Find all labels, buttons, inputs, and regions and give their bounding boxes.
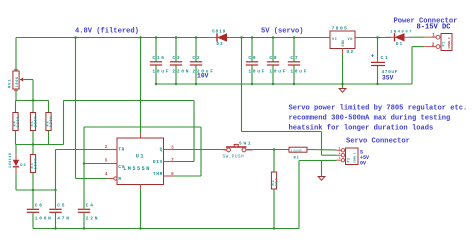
wire 555 gnd drop <box>140 190 142 229</box>
wire C1 top lead <box>377 38 379 62</box>
svg-text:10uF: 10uF <box>152 69 170 75</box>
wire R5 top lead <box>32 101 34 113</box>
connector P2 box <box>346 148 359 165</box>
wire R4 bottom lead <box>15 131 17 145</box>
svg-text:C6: C6 <box>35 203 44 209</box>
svg-text:1N4007: 1N4007 <box>390 30 413 34</box>
wire R6 top lead <box>48 101 50 113</box>
wire 7805 input to D1 <box>362 37 392 39</box>
wire RV1 wiper <box>23 79 33 81</box>
capacitor C1 <box>371 54 398 82</box>
svg-text:10uF: 10uF <box>248 69 266 75</box>
wire TR drop to C5 <box>55 150 57 209</box>
svg-text:C10: C10 <box>152 55 165 61</box>
svg-text:5: 5 <box>105 158 108 164</box>
wire reset drop <box>75 38 77 179</box>
svg-text:5819: 5819 <box>212 30 226 35</box>
ground symbol near servo connector <box>318 177 325 181</box>
junction <box>273 227 275 229</box>
wire 5V feed horizontal <box>242 131 322 133</box>
wire to P2 +5V pin <box>322 154 337 156</box>
diode D2 body <box>208 33 232 41</box>
svg-text:1N4148: 1N4148 <box>9 152 13 168</box>
capacitor C6 <box>27 203 53 222</box>
wire TR rail <box>16 189 56 191</box>
wire 0V drop <box>298 161 300 229</box>
wire R5 bottom lead <box>32 131 34 145</box>
svg-text:P1: P1 <box>443 41 447 47</box>
junction <box>155 36 157 38</box>
wire 5V rail <box>232 37 323 39</box>
resistor R6 <box>46 113 54 131</box>
svg-text:+: + <box>371 54 374 60</box>
svg-text:D3: D3 <box>20 164 26 168</box>
wire THR/CV drop to C4 <box>83 127 85 209</box>
svg-text:Q: Q <box>160 147 163 153</box>
555 gnd pin <box>140 185 142 191</box>
wire C8 bottom lead <box>272 65 274 84</box>
svg-text:R1: R1 <box>294 156 300 160</box>
resistor R4 <box>13 113 21 131</box>
svg-text:100K: 100K <box>16 76 20 88</box>
svg-text:3: 3 <box>339 156 341 160</box>
svg-text:0V: 0V <box>360 160 366 166</box>
555 vcc pin stub <box>140 133 142 138</box>
wire C7 bottom lead <box>293 65 295 84</box>
svg-text:SW_PUSH: SW_PUSH <box>223 155 245 160</box>
svg-text:7: 7 <box>171 157 174 163</box>
svg-text:Servo power limited by 7805 re: Servo power limited by 7805 regulator et… <box>289 105 468 113</box>
wire resistor top rail <box>16 100 49 102</box>
wire R2 bottom lead <box>273 189 275 229</box>
wire Q output <box>174 149 226 151</box>
wire R4 top lead <box>15 101 17 113</box>
svg-text:100R: 100R <box>290 150 302 154</box>
svg-text:DIS: DIS <box>153 159 163 165</box>
capacitor C7 <box>288 55 308 74</box>
svg-text:C8: C8 <box>269 55 278 61</box>
potentiometer RV1 <box>9 70 24 91</box>
wire C6 top lead <box>32 190 34 209</box>
wire R1 to servo S <box>307 149 337 151</box>
svg-text:Servo Connector: Servo Connector <box>346 138 410 146</box>
svg-text:C7: C7 <box>290 55 299 61</box>
wire to DIS pin <box>174 161 194 163</box>
svg-text:C4: C4 <box>86 203 95 209</box>
junction <box>272 36 274 38</box>
svg-text:C9: C9 <box>248 55 257 61</box>
wire 0V <box>299 159 337 161</box>
junction <box>195 36 197 38</box>
diode D3 1N4148 <box>9 152 26 174</box>
wire gnd stub servo <box>321 160 323 176</box>
svg-text:100K: 100K <box>35 158 39 170</box>
svg-text:TR: TR <box>118 147 125 153</box>
wire ground rail mid <box>156 83 412 85</box>
junction <box>155 83 157 85</box>
wire R3 bottom lead <box>32 173 34 191</box>
svg-text:220K: 220K <box>17 116 21 128</box>
svg-text:D1: D1 <box>396 43 403 47</box>
wire C8 top lead <box>272 38 274 62</box>
wire P1 pin2 <box>412 46 424 48</box>
junction <box>240 36 242 38</box>
svg-text:recommend 300-500mA max during: recommend 300-500mA max during testing <box>289 115 451 123</box>
wire C9 top lead <box>251 38 253 62</box>
wire DIS riser <box>63 101 65 145</box>
capacitor C8 <box>267 55 287 74</box>
junction <box>83 227 85 229</box>
wire 4.8V rail <box>16 37 208 39</box>
junction <box>175 36 177 38</box>
wire 5V feed drop <box>241 38 243 132</box>
svg-text:1: 1 <box>432 32 435 38</box>
junction <box>54 189 56 191</box>
wire 7805 gnd <box>342 54 344 85</box>
wire 555 vcc drop <box>140 38 142 134</box>
svg-text:100N: 100N <box>35 215 53 221</box>
wire C5 bottom lead <box>55 212 57 228</box>
svg-text:10uF: 10uF <box>269 69 287 75</box>
resistor <box>271 172 279 189</box>
junction <box>251 36 253 38</box>
svg-text:35V: 35V <box>382 75 394 82</box>
wire TR <box>56 149 109 151</box>
junction <box>54 227 56 229</box>
svg-text:6: 6 <box>171 171 174 177</box>
wire THR riser <box>200 127 202 176</box>
svg-text:10V: 10V <box>197 73 209 80</box>
junction <box>175 83 177 85</box>
svg-text:10uF: 10uF <box>290 69 308 75</box>
junction <box>139 227 141 229</box>
ground symbol under 7805 <box>339 89 346 93</box>
svg-text:3: 3 <box>171 144 174 150</box>
resistor R1 <box>289 147 307 160</box>
junction <box>195 83 197 85</box>
svg-text:C3: C3 <box>172 55 181 61</box>
junction <box>74 36 76 38</box>
wire P1 pin2 drop <box>411 47 413 84</box>
junction <box>139 36 141 38</box>
svg-text:U2: U2 <box>347 49 355 55</box>
wire C4 bottom lead <box>83 212 85 228</box>
svg-text:VO: VO <box>348 38 354 42</box>
wire R3 top lead <box>32 145 34 155</box>
wire D3 top lead <box>15 145 17 154</box>
wire THR to riser <box>174 175 201 177</box>
wire top rail to RV1 <box>15 38 17 72</box>
ic U1 LM555N box <box>117 138 164 185</box>
svg-text:VI: VI <box>332 38 338 42</box>
svg-text:U1: U1 <box>136 153 145 159</box>
resistor <box>30 155 38 173</box>
junction <box>32 143 34 145</box>
wire wiper drop <box>32 80 34 101</box>
svg-text:8-15V DC: 8-15V DC <box>417 24 452 32</box>
svg-text:2: 2 <box>432 42 435 48</box>
svg-text:7805: 7805 <box>332 26 349 32</box>
svg-text:SW1: SW1 <box>239 141 252 147</box>
capacitor C10 <box>150 55 170 74</box>
capacitor C4 <box>78 203 99 222</box>
wire to reset pin <box>76 178 109 180</box>
wire SW1 to R1 <box>246 149 289 151</box>
wire D1 to P1 pin1 <box>410 36 425 38</box>
svg-text:4.8V (filtered): 4.8V (filtered) <box>75 28 139 36</box>
wire DIS horizontal <box>64 100 195 102</box>
7805 pins <box>323 37 330 39</box>
wire C6 bottom lead <box>32 212 34 228</box>
junction <box>32 99 34 101</box>
wire RV1 bottom <box>15 90 17 100</box>
wire D3 bottom lead <box>15 174 17 190</box>
connector P1 box <box>441 34 452 51</box>
svg-text:1: 1 <box>339 146 341 150</box>
svg-text:C1: C1 <box>381 55 390 61</box>
svg-text:RV1: RV1 <box>9 78 13 88</box>
wire 5V feed drop2 <box>321 132 323 156</box>
wire C3 top lead <box>175 38 177 62</box>
svg-text:220N: 220N <box>172 69 190 75</box>
wire C10 bottom lead <box>155 65 157 84</box>
junction <box>293 36 295 38</box>
capacitor C2 <box>190 55 215 74</box>
capacitor C9 <box>246 55 266 74</box>
wire CV <box>84 163 108 165</box>
junction <box>273 148 275 150</box>
resistor R5 <box>30 113 38 131</box>
wire C9 bottom lead <box>251 65 253 84</box>
regulator U2 7805 box <box>330 31 355 49</box>
wire C1 bottom lead <box>377 66 379 85</box>
svg-text:220K: 220K <box>50 116 54 128</box>
svg-text:CONN_2: CONN_2 <box>448 37 451 48</box>
junction <box>251 83 253 85</box>
diode D1 body <box>386 33 410 41</box>
wire resistor bottom rail <box>16 144 64 146</box>
junction <box>32 189 34 191</box>
555 pin stubs <box>108 149 117 151</box>
svg-text:LM555N: LM555N <box>123 166 151 172</box>
wire C2 bottom lead <box>195 65 197 84</box>
svg-text:D2: D2 <box>217 43 224 47</box>
svg-text:220K: 220K <box>35 116 39 128</box>
svg-text:CONN_3: CONN_3 <box>354 152 357 163</box>
svg-text:C2: C2 <box>192 55 201 61</box>
wire R2 top lead <box>273 150 275 173</box>
svg-text:CV: CV <box>118 164 125 170</box>
svg-text:R: R <box>118 176 121 182</box>
switch SW1 <box>223 141 253 160</box>
svg-text:THR: THR <box>153 171 163 177</box>
junction <box>272 83 274 85</box>
svg-text:4K7: 4K7 <box>276 178 280 187</box>
junction <box>376 83 378 85</box>
junction <box>341 83 343 85</box>
wire THR horizontal <box>84 126 201 128</box>
svg-text:C5: C5 <box>57 203 66 209</box>
wire DIS drop <box>193 101 195 162</box>
svg-text:47N: 47N <box>57 215 70 221</box>
capacitor C3 <box>170 55 190 74</box>
wire C2 top lead <box>195 38 197 62</box>
svg-text:2: 2 <box>339 151 341 155</box>
wire C10 top lead <box>155 38 157 62</box>
wire C7 top lead <box>293 38 295 62</box>
wire C3 bottom lead <box>175 65 177 84</box>
junction <box>376 36 378 38</box>
svg-text:P2: P2 <box>348 157 352 162</box>
wire gnd stub <box>342 84 344 89</box>
junction <box>293 83 295 85</box>
svg-text:GND: GND <box>341 40 345 47</box>
junction <box>83 162 85 164</box>
svg-text:22N: 22N <box>86 215 99 221</box>
capacitor C5 <box>49 203 70 222</box>
svg-text:2: 2 <box>105 144 108 150</box>
svg-text:5V (servo): 5V (servo) <box>261 28 304 36</box>
wire bottom ground rail <box>33 228 299 230</box>
wire R6 bottom lead <box>48 131 50 145</box>
svg-text:4: 4 <box>105 171 108 177</box>
